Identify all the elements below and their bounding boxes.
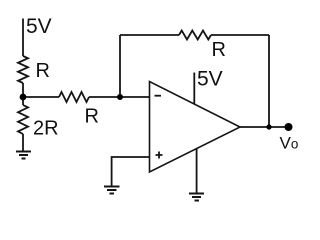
wire: feedback down to output node (268, 35, 270, 127)
node A junction dot (20, 94, 27, 101)
wire: op-amp output to Vo terminal (240, 126, 288, 128)
wire: feedback top left segment (120, 34, 179, 36)
op-amp minus sign (155, 95, 162, 97)
op-amp U1 (150, 82, 241, 173)
svg-text:R: R (36, 60, 50, 82)
wire: R2 to ground (22, 134, 24, 151)
wire: op-amp positive supply 5V (193, 73, 195, 105)
resistor R1 (vertical, value R) (18, 56, 28, 83)
resistor R2 (vertical, value 2R) (18, 105, 28, 134)
op-amp plus sign (156, 152, 163, 159)
ground (non-inverting input) (104, 187, 120, 194)
terminal Vo dot (285, 123, 293, 131)
wire: R3 to node B (inverting input) (89, 96, 150, 98)
wire: 5V rail down to resistor R1 (22, 19, 24, 57)
svg-text:5V: 5V (26, 15, 52, 38)
wire: feedback top right segment (211, 34, 269, 36)
wire: node B up to feedback (119, 35, 121, 97)
wire: node A to resistor R3 (23, 96, 59, 98)
wire: R1 to node A (22, 83, 24, 97)
wire: node A to resistor R2 (22, 97, 24, 105)
output node junction dot (266, 124, 271, 129)
svg-text:R: R (85, 106, 99, 128)
ground (below R2) (16, 152, 31, 159)
svg-text:5V: 5V (197, 68, 223, 91)
svg-text:R: R (212, 39, 226, 61)
resistor R3 (horizontal, value R) (59, 92, 89, 102)
wire: op-amp negative supply to ground (196, 149, 198, 193)
node B junction dot (117, 94, 123, 100)
svg-text:2R: 2R (33, 118, 59, 140)
ground (negative supply) (189, 194, 204, 201)
svg-text:Vo: Vo (280, 134, 299, 153)
wire: non-inverting input to ground (112, 157, 150, 186)
resistor R4 (feedback, value R) (179, 31, 211, 40)
